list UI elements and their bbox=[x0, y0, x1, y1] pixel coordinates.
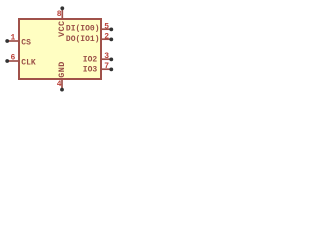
svg-text:1: 1 bbox=[10, 34, 15, 43]
pin 2 DO wire bbox=[101, 38, 111, 40]
svg-text:IO3: IO3 bbox=[83, 66, 98, 75]
IC body U1 bbox=[19, 19, 101, 79]
pin 7 IO3 wire bbox=[101, 68, 111, 70]
svg-text:7: 7 bbox=[104, 62, 109, 71]
pin 8 end dot bbox=[60, 6, 64, 10]
pin 3 IO2 wire bbox=[101, 58, 111, 60]
svg-text:CS: CS bbox=[21, 38, 31, 47]
pin 1 CS wire bbox=[7, 40, 19, 42]
pin 6 end dot bbox=[5, 59, 9, 63]
pin 5 DI wire bbox=[101, 28, 111, 30]
svg-text:6: 6 bbox=[10, 54, 15, 63]
pin 2 end dot bbox=[109, 38, 113, 42]
pin 6 CLK wire bbox=[7, 60, 19, 62]
pin 1 end dot bbox=[5, 39, 9, 43]
svg-text:GND: GND bbox=[57, 61, 67, 78]
pin 4 end dot bbox=[60, 88, 64, 92]
svg-text:CLK: CLK bbox=[21, 58, 36, 67]
pin 8 VCC wire bbox=[61, 8, 63, 19]
svg-text:VCC: VCC bbox=[57, 20, 67, 37]
svg-text:5: 5 bbox=[104, 22, 109, 31]
svg-text:2: 2 bbox=[104, 32, 109, 41]
pin 5 end dot bbox=[109, 28, 113, 32]
SPI flash IC schematic symbol U1 bbox=[0, 0, 120, 100]
pin 3 end dot bbox=[109, 58, 113, 62]
svg-text:IO2: IO2 bbox=[83, 56, 98, 65]
svg-text:8: 8 bbox=[57, 10, 62, 19]
svg-text:4: 4 bbox=[57, 80, 62, 89]
svg-text:3: 3 bbox=[104, 52, 109, 61]
pin 4 GND wire bbox=[61, 79, 63, 90]
pin 7 end dot bbox=[109, 68, 113, 72]
svg-text:DO(IO1): DO(IO1) bbox=[66, 35, 100, 44]
svg-text:DI(IO0): DI(IO0) bbox=[66, 24, 100, 33]
